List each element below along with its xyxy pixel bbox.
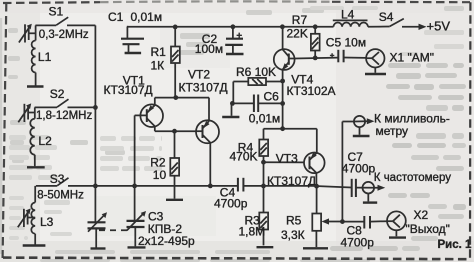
svg-text:1,8-12MHz: 1,8-12MHz [36, 110, 92, 122]
svg-text:4700р: 4700р [342, 161, 376, 175]
node rail/R7 [313, 24, 318, 29]
node R4 line / main line (C4/R3) [261, 184, 266, 189]
node S3/bus/main line [93, 184, 98, 189]
ground under C2 [226, 53, 244, 55]
node R6/C6 ground [230, 101, 235, 106]
tank bus wire (vertical) [94, 25, 96, 222]
ground under L3 [23, 244, 46, 246]
svg-text:"Выход": "Выход" [406, 222, 450, 236]
svg-text:4700р: 4700р [341, 236, 375, 250]
node base column / main line [132, 184, 137, 189]
resistor R2 [170, 131, 179, 198]
ground under L1 [27, 85, 44, 87]
capacitor C1 [121, 39, 144, 52]
svg-text:КТ3102А: КТ3102А [287, 84, 336, 98]
svg-text:S3: S3 [50, 172, 65, 186]
svg-text:2х12-495р: 2х12-495р [138, 234, 195, 248]
node rail/C2 [231, 24, 236, 29]
capacitor C6 [232, 82, 283, 116]
node R4 bottom / VT3 base [261, 160, 266, 165]
VT4 emitter node horizontal wire [264, 128, 317, 130]
variable capacitor C3 section b [127, 211, 147, 246]
connector X1 [366, 49, 384, 73]
inductor L1 [32, 25, 36, 85]
frequency meter terminal [356, 182, 385, 202]
ground under R2 [166, 199, 183, 201]
svg-text:1,8М: 1,8М [239, 225, 266, 239]
svg-text:метру: метру [376, 124, 409, 138]
connector X2 [387, 211, 406, 236]
svg-text:10: 10 [153, 168, 167, 182]
resistor R6 [233, 78, 282, 85]
capacitor C7 [352, 179, 356, 197]
svg-text:R1: R1 [151, 45, 167, 59]
svg-text:1К: 1К [151, 58, 165, 72]
node VT2 collector / main line [208, 184, 213, 189]
emitters wire (top) [155, 98, 209, 121]
svg-text:C1: C1 [108, 10, 124, 24]
node S2/bus [93, 105, 98, 110]
node rail/VT4 collector [280, 24, 285, 29]
trimmer capacitor band 3 [18, 208, 35, 227]
capacitor C2 (electrolytic) [225, 27, 243, 53]
svg-text:C6: C6 [264, 90, 280, 104]
ground under R3 [257, 246, 274, 248]
resistor R3 [259, 186, 268, 246]
svg-text:22K: 22K [287, 26, 308, 40]
capacitor C5 [330, 50, 366, 63]
transistor VT3 [264, 129, 325, 187]
wire rail to C1 [126, 27, 129, 39]
transistor VT4 [274, 27, 295, 129]
svg-text:R5: R5 [286, 213, 302, 227]
svg-text:L3: L3 [40, 215, 54, 229]
svg-text:КТ3107Д: КТ3107Д [104, 83, 153, 97]
potentiometer R5 [312, 186, 342, 247]
svg-text:0,01м: 0,01м [131, 10, 163, 24]
ground under C1 [125, 52, 142, 54]
ground under X1 [365, 73, 386, 75]
svg-text:X1 "АМ": X1 "АМ" [390, 51, 435, 65]
svg-text:L2: L2 [38, 134, 52, 148]
capacitor C8 [342, 216, 387, 229]
inductor L2 [30, 107, 35, 166]
ground under L2 [27, 166, 45, 168]
+5V arrow [402, 24, 427, 30]
svg-text:S1: S1 [49, 4, 64, 18]
resistor R7 [311, 27, 320, 58]
inductor L4 [333, 20, 390, 26]
millivoltmeter branch wire [342, 122, 354, 222]
ground under X2 [389, 236, 406, 238]
svg-text:+5V: +5V [427, 19, 451, 34]
node R6 / VT4 emitter line [280, 79, 285, 84]
gang link dashes [99, 229, 131, 231]
svg-text:VT3: VT3 [276, 151, 298, 165]
VT4 base wire [295, 57, 339, 60]
svg-text:0,3-2MHz: 0,3-2MHz [39, 29, 89, 41]
capacitor C4 [238, 178, 244, 192]
resistor R1 [171, 27, 180, 98]
band 1: switch S1 [35, 17, 95, 25]
node R7 bottom [313, 56, 318, 61]
resistor R4 [259, 129, 268, 186]
node R2 top [172, 129, 177, 134]
VT1 collector to VT2 base wire [155, 130, 196, 132]
svg-text:4700р: 4700р [214, 197, 248, 211]
svg-text:470K: 470K [230, 149, 258, 163]
node R1/emitters [173, 95, 178, 100]
svg-text:3,3К: 3,3К [281, 228, 305, 242]
transistor VT1 [135, 98, 163, 132]
svg-text:К частотомеру: К частотомеру [374, 172, 451, 184]
ground under freq terminal [363, 201, 377, 203]
svg-text:S2: S2 [50, 87, 65, 101]
ground under R6/C6 [222, 116, 239, 118]
node VT4 emitter / wire [280, 126, 285, 131]
svg-text:R7: R7 [292, 13, 308, 27]
node C6 / VT4 emitter line [280, 101, 285, 106]
svg-text:КТ3107Д: КТ3107Д [179, 80, 228, 94]
wire VT1 base column [134, 115, 136, 220]
node R5 wiper / mV line / C8 [340, 219, 345, 224]
ground under C3b [128, 246, 146, 248]
node VT3 collector / main line [314, 184, 319, 189]
+5V supply rail wire [127, 26, 334, 28]
ground under C3a [91, 247, 106, 249]
variable capacitor C3 section a [88, 212, 108, 247]
svg-text:0,01м: 0,01м [249, 111, 281, 125]
trimmer capacitor band 2 [18, 103, 35, 122]
switch S4 [390, 19, 404, 27]
svg-text:R6 10K: R6 10K [236, 65, 276, 79]
transistor VT2 [196, 120, 219, 186]
trimmer capacitor band 1 [19, 24, 36, 43]
svg-text:L1: L1 [38, 50, 52, 64]
svg-text:Рис. 1: Рис. 1 [438, 239, 473, 251]
svg-text:8-50MHz: 8-50MHz [37, 189, 84, 201]
svg-text:КТ3107Д: КТ3107Д [267, 174, 316, 188]
svg-text:C5 10м: C5 10м [326, 35, 366, 49]
ground under R5 [303, 247, 328, 249]
svg-text:L4: L4 [341, 7, 355, 21]
main oscillator node wire [68, 186, 352, 188]
band 3: switch S3 [36, 178, 69, 186]
svg-text:100м: 100м [195, 42, 223, 56]
millivoltmeter terminal [354, 116, 375, 135]
svg-text:X2: X2 [414, 208, 429, 222]
node rail/R1 [173, 25, 178, 30]
inductor L3 [31, 186, 35, 245]
band 2: switch S2 [35, 99, 96, 107]
svg-text:S4: S4 [379, 10, 394, 24]
ground under mV terminal [353, 135, 370, 137]
